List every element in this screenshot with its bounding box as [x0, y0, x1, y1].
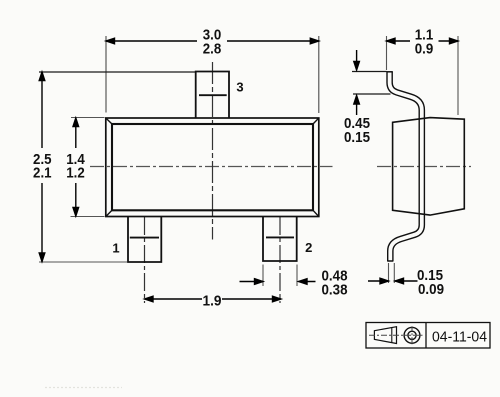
svg-text:04-11-04: 04-11-04 — [432, 330, 487, 346]
svg-text:2.8: 2.8 — [203, 41, 222, 58]
svg-text:1.2: 1.2 — [66, 165, 85, 182]
svg-text:2: 2 — [305, 240, 312, 255]
svg-text:0.15: 0.15 — [344, 129, 370, 146]
svg-text:1.9: 1.9 — [203, 293, 222, 310]
svg-text:0.38: 0.38 — [322, 282, 348, 299]
svg-text:3: 3 — [236, 80, 243, 95]
svg-text:2.1: 2.1 — [33, 165, 52, 182]
svg-text:1: 1 — [112, 241, 119, 256]
svg-text:0.09: 0.09 — [418, 281, 444, 298]
svg-text:0.9: 0.9 — [415, 41, 434, 58]
